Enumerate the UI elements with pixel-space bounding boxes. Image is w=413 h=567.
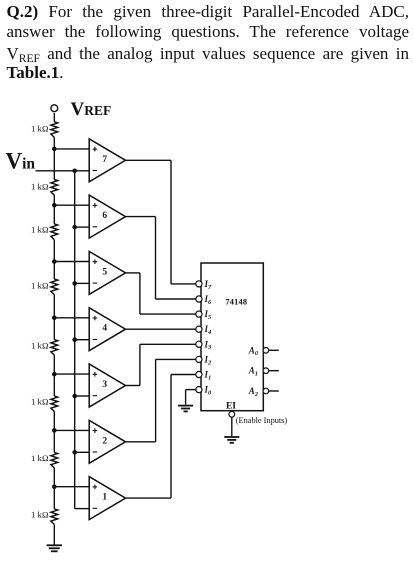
svg-text:VREF: VREF xyxy=(71,99,112,120)
svg-text:Vin: Vin xyxy=(6,148,36,173)
svg-text:1 kΩ: 1 kΩ xyxy=(31,280,49,290)
svg-text:74148: 74148 xyxy=(225,297,247,306)
svg-text:3: 3 xyxy=(102,380,107,390)
svg-text:1 kΩ: 1 kΩ xyxy=(31,453,49,463)
svg-text:6: 6 xyxy=(102,211,107,221)
svg-text:1 kΩ: 1 kΩ xyxy=(31,225,49,235)
svg-text:1: 1 xyxy=(102,493,107,503)
svg-text:EI: EI xyxy=(226,401,236,411)
svg-text:1 kΩ: 1 kΩ xyxy=(31,181,49,191)
svg-text:7: 7 xyxy=(102,155,107,165)
svg-text:2: 2 xyxy=(102,436,107,446)
svg-text:1 kΩ: 1 kΩ xyxy=(31,124,49,134)
svg-text:4: 4 xyxy=(102,324,107,334)
svg-text:1 kΩ: 1 kΩ xyxy=(31,510,49,520)
svg-text:5: 5 xyxy=(102,267,107,277)
svg-text:(Enable Inputs): (Enable Inputs) xyxy=(236,416,288,425)
svg-text:1 kΩ: 1 kΩ xyxy=(31,340,49,350)
svg-text:1 kΩ: 1 kΩ xyxy=(31,397,49,407)
